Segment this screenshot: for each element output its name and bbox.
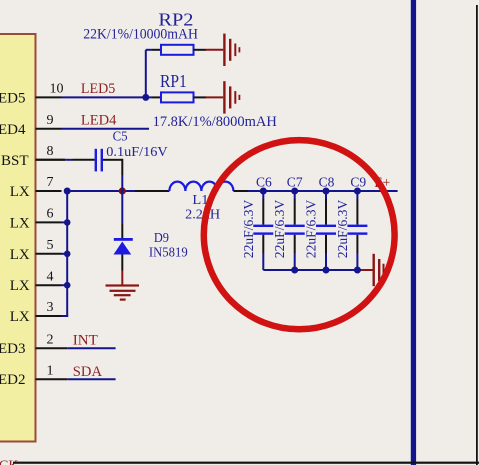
svg-text:7: 7 <box>47 175 54 190</box>
pin 9 LED4 <box>0 113 62 138</box>
svg-text:RP1: RP1 <box>160 71 187 91</box>
net label LED5 <box>81 81 115 97</box>
junction C8 top <box>323 188 330 195</box>
svg-text:C8: C8 <box>319 176 335 191</box>
svg-text:17.8K/1%/8000mAH: 17.8K/1%/8000mAH <box>153 114 277 130</box>
wire net SDA (pin1) <box>67 378 115 380</box>
power ground GND (RP1 right) <box>206 81 240 113</box>
designator C7 <box>287 176 303 191</box>
svg-text:4: 4 <box>47 269 54 284</box>
net label INT <box>73 333 98 349</box>
wire net LED5 (pin10 to RP1) <box>62 96 153 98</box>
svg-text:C5: C5 <box>113 130 128 145</box>
value 22uF/6.3V (C6, rotated) <box>242 200 257 258</box>
pin 7 LX <box>10 175 62 200</box>
value 22uF/6.3V (C8, rotated) <box>305 200 320 259</box>
sheet border bottom (black) <box>13 462 479 464</box>
svg-text:22K/1%/10000mAH: 22K/1%/10000mAH <box>83 27 198 43</box>
resistor RP1 <box>152 92 206 102</box>
resistor RP2 <box>146 45 206 55</box>
svg-text:5: 5 <box>47 238 54 253</box>
svg-text:D9: D9 <box>154 231 169 246</box>
svg-text:LX: LX <box>10 309 30 325</box>
capacitor C9 <box>347 191 367 270</box>
svg-text:LX: LX <box>10 247 30 263</box>
designator RP2 <box>158 9 193 29</box>
designator RP1 <box>160 71 187 91</box>
wire RP2 branch vertical <box>145 50 147 98</box>
pin 10 LED5 <box>0 82 64 107</box>
junction pin6 <box>64 219 71 226</box>
svg-text:1: 1 <box>47 363 54 378</box>
svg-text:C7: C7 <box>287 176 303 191</box>
designator D9 <box>154 231 169 246</box>
junction RP branch on LED5 <box>142 94 149 101</box>
net label LED4 <box>81 112 117 128</box>
wire LX vertical bus x=67 (pin7 down to pin3) <box>62 191 68 316</box>
value 22uF/6.3V (C9, rotated) <box>336 200 351 259</box>
svg-text:LX: LX <box>10 184 30 200</box>
capacitor C7 <box>285 191 305 270</box>
designator C5 <box>113 130 128 145</box>
svg-text:IN5819: IN5819 <box>149 246 188 261</box>
pin 6 LX <box>10 207 62 232</box>
svg-text:C6: C6 <box>256 176 272 191</box>
svg-text:3: 3 <box>47 300 54 315</box>
value 0.1uF/16V <box>106 145 167 160</box>
svg-text:22uF/6.3V: 22uF/6.3V <box>242 200 257 258</box>
capacitor C6 <box>253 191 273 270</box>
svg-text:SDA: SDA <box>73 364 102 380</box>
svg-text:22uF/6.3V: 22uF/6.3V <box>305 200 320 259</box>
inductor L1 <box>169 182 248 191</box>
pin 8 BST <box>1 144 65 169</box>
value 17.8K/1%/8000mAH <box>153 114 277 130</box>
capacitor C8 <box>316 191 336 270</box>
svg-text:LED5: LED5 <box>81 81 115 97</box>
svg-text:9: 9 <box>47 113 54 128</box>
svg-text:LX: LX <box>10 278 30 294</box>
pin 1 LED2 <box>0 363 67 388</box>
power ground GND (capacitor bank) <box>361 254 389 286</box>
IC U1 body (sheet part, left edge cut off) <box>0 34 36 442</box>
pin 2 LED3 <box>0 332 67 357</box>
junction C9 top <box>354 188 361 195</box>
svg-text:8: 8 <box>47 144 54 159</box>
net label SDA <box>73 364 102 380</box>
svg-text:6: 6 <box>47 207 54 222</box>
wire LX rail to inductor <box>67 190 169 192</box>
svg-text:LX: LX <box>10 215 30 231</box>
capacitor C5 <box>36 149 123 191</box>
sheet border (blue vertical line) <box>411 0 416 465</box>
svg-text:LED3: LED3 <box>0 341 26 357</box>
pin 3 LX <box>10 300 68 325</box>
designator C8 <box>319 176 335 191</box>
svg-text:LED4: LED4 <box>81 112 117 128</box>
wire net INT (pin2) <box>67 347 115 349</box>
pin 4 LX <box>10 269 62 294</box>
svg-text:22uF/6.3V: 22uF/6.3V <box>336 200 351 259</box>
wire bottom bus of capacitor bank <box>263 269 361 271</box>
value 2.2uH <box>185 208 220 223</box>
svg-text:0.1uF/16V: 0.1uF/16V <box>106 145 167 160</box>
junction C6 top <box>260 188 267 195</box>
sheet border right (black) <box>476 5 478 465</box>
designator C9 <box>350 176 366 191</box>
svg-text:LED4: LED4 <box>0 122 26 138</box>
designator L1 <box>192 193 208 208</box>
junction node LX / C5 / D9 (red dot) <box>119 187 126 194</box>
svg-text:INT: INT <box>73 333 98 349</box>
svg-text:10: 10 <box>50 82 64 97</box>
power ground GND (RP2 right) <box>206 34 240 66</box>
junction C7 top <box>291 188 298 195</box>
value IN5819 <box>149 246 188 261</box>
pin 5 LX <box>10 238 62 263</box>
junction pin7 node LX <box>64 188 71 195</box>
svg-text:LED5: LED5 <box>0 90 26 106</box>
svg-text:BST: BST <box>1 153 29 169</box>
diode D9 <box>114 191 133 271</box>
svg-text:2: 2 <box>47 332 54 347</box>
junction C7 bottom <box>291 267 298 274</box>
junction C9 bottom <box>354 267 361 274</box>
junction pin4 <box>64 282 71 289</box>
junction pin5 <box>64 251 71 258</box>
svg-text:LED2: LED2 <box>0 372 26 388</box>
designator C6 <box>256 176 272 191</box>
highlight circle (red marker) <box>204 140 395 329</box>
net label E+ <box>374 175 390 191</box>
wire E+ rail (inductor to E+) <box>248 190 398 192</box>
earth ground (below D9) <box>106 271 140 301</box>
junction C8 bottom <box>323 267 330 274</box>
net label CK (clipped at bottom left) <box>0 459 18 465</box>
svg-text:C9: C9 <box>350 176 366 191</box>
svg-text:22uF/6.3V: 22uF/6.3V <box>273 200 288 259</box>
value 22K/1%/10000mAH <box>83 27 198 43</box>
value 22uF/6.3V (C7, rotated) <box>273 200 288 259</box>
wire net LED4 (pin9 stub wire) <box>62 128 150 130</box>
